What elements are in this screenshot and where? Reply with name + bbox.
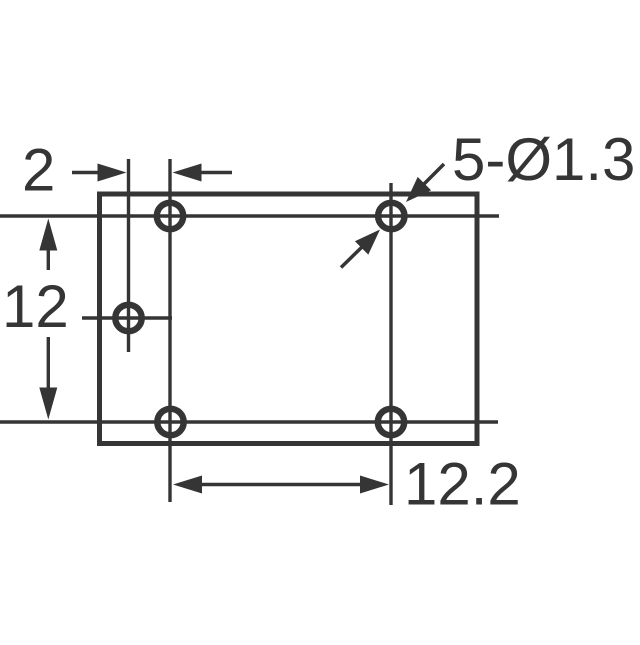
centerline bottom holes row (0, 420, 498, 423)
dimension 12.2 arrow line (200, 483, 362, 486)
dimension 12.2 right arrowhead (360, 476, 389, 494)
hole top-left (157, 203, 183, 229)
relay body outline rectangle (100, 194, 478, 444)
svg-text:2: 2 (22, 137, 55, 204)
centerline middle-left hole (82, 316, 172, 319)
svg-text:12.2: 12.2 (404, 451, 521, 518)
hole middle-left (115, 305, 141, 331)
hole bottom-left (157, 409, 183, 435)
dimension 12 down arrow (47, 337, 50, 388)
dimension 12 up arrow (39, 219, 57, 251)
leader upper line (422, 164, 444, 186)
leader upper arrowhead (406, 177, 431, 202)
centerline top holes row (0, 214, 499, 217)
hole top-right (378, 203, 404, 229)
hole bottom-right (378, 409, 404, 435)
leader lower arrowhead (355, 230, 380, 255)
extension line right holes column (389, 183, 392, 505)
extension line middle hole column (127, 159, 130, 352)
leader lower line (341, 246, 363, 268)
dimension 2 right arrow (173, 164, 202, 182)
extension line left holes column (168, 159, 171, 502)
svg-text:12: 12 (2, 273, 69, 340)
dimension 2 left arrow (72, 171, 98, 174)
svg-text:5-Ø1.3: 5-Ø1.3 (452, 126, 635, 193)
dimension 12.2 left arrowhead (173, 476, 202, 494)
